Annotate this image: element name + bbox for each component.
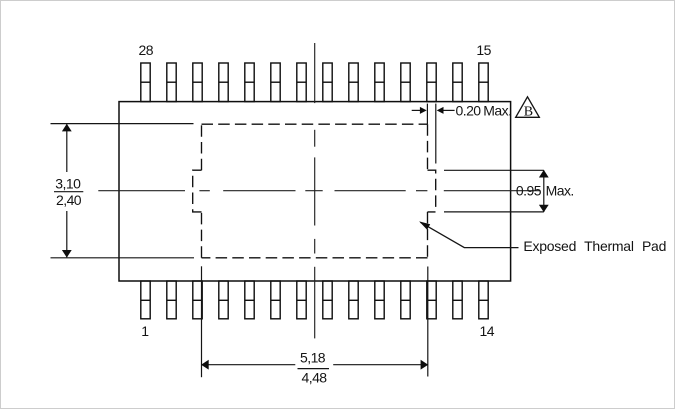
thermal pad left edge lower xyxy=(201,212,203,258)
bottom pin 12 xyxy=(427,281,436,319)
svg-text:14: 14 xyxy=(480,323,495,339)
top pin 25 xyxy=(219,63,228,102)
left dim fraction bar xyxy=(54,191,83,193)
thermal pad leader line xyxy=(421,222,519,247)
top pin 24 xyxy=(245,63,254,102)
svg-text:3,10: 3,10 xyxy=(55,176,81,192)
bottom pin 11 xyxy=(401,281,410,319)
top pin 21 xyxy=(323,63,332,102)
svg-text:2,40: 2,40 xyxy=(56,192,82,208)
left dim bottom extension line xyxy=(51,257,195,259)
bottom pin 14 xyxy=(479,281,488,319)
left dim top extension line xyxy=(51,123,194,125)
thermal pad left edge upper xyxy=(201,124,203,170)
left dim arrowhead down xyxy=(62,250,72,258)
bottom pin 8 xyxy=(323,281,332,319)
0.95 dim arrowhead up xyxy=(539,170,549,178)
svg-text:15: 15 xyxy=(476,42,491,58)
svg-text:B: B xyxy=(524,105,533,120)
bottom pin 4 xyxy=(219,281,228,319)
thermal pad left notch xyxy=(193,170,202,212)
top pin 16 xyxy=(453,63,462,102)
0.20 dim right arrow xyxy=(437,107,455,114)
left dim line xyxy=(66,124,68,257)
svg-text:0.95: 0.95 xyxy=(516,182,542,198)
0.95 dim bottom extension line xyxy=(444,211,544,213)
bottom pin 5 xyxy=(245,281,254,319)
bottom pin 9 xyxy=(349,281,358,319)
top pin 18 xyxy=(401,63,410,102)
revision triangle B xyxy=(516,97,540,120)
svg-text:Max.: Max. xyxy=(483,102,511,118)
thermal pad leader arrowhead xyxy=(419,221,430,229)
bottom pin 2 xyxy=(167,281,176,319)
svg-text:Max.: Max. xyxy=(546,182,574,198)
top pin 15 xyxy=(479,63,488,102)
top pin 17 xyxy=(427,63,436,102)
0.95 dim line xyxy=(543,170,545,212)
svg-text:0.20: 0.20 xyxy=(456,102,482,118)
bottom dim left extension line xyxy=(201,266,203,377)
bottom dim arrowhead left xyxy=(201,360,209,370)
bottom pin 6 xyxy=(271,281,280,319)
thermal pad top edge xyxy=(202,123,428,125)
package body outline xyxy=(119,102,511,281)
top pin 20 xyxy=(349,63,358,102)
svg-text:1: 1 xyxy=(141,323,149,339)
bottom pin 3 xyxy=(193,281,202,319)
svg-text:28: 28 xyxy=(139,42,154,58)
left dim arrowhead up xyxy=(62,124,72,132)
0.20 dim notch extension line xyxy=(435,104,437,164)
thermal pad right edge lower xyxy=(427,212,429,258)
bottom pin 13 xyxy=(453,281,462,319)
0.95 dim arrowhead down xyxy=(539,205,549,213)
bottom pin 7 xyxy=(297,281,306,319)
bottom dim right extension line xyxy=(427,267,429,377)
bottom dim arrowhead right xyxy=(421,360,429,370)
bottom pin 10 xyxy=(375,281,384,319)
thermal pad right notch xyxy=(428,170,436,212)
top pin 28 xyxy=(141,63,150,102)
0.20 dim left arrow xyxy=(412,107,427,114)
thermal pad bottom edge xyxy=(202,257,428,259)
0.20 dim pad-edge extension line xyxy=(426,104,428,125)
vertical centerline xyxy=(314,43,316,338)
top pin 27 xyxy=(167,63,176,102)
top pin 26 xyxy=(193,63,202,102)
top pin 23 xyxy=(271,63,280,102)
horizontal centerline xyxy=(98,190,540,192)
thermal pad right edge upper xyxy=(427,124,429,170)
bottom pin 1 xyxy=(141,281,150,319)
svg-text:Exposed Thermal Pad: Exposed Thermal Pad xyxy=(523,238,666,254)
svg-text:5,18: 5,18 xyxy=(300,350,326,366)
top pin 19 xyxy=(375,63,384,102)
top pin 22 xyxy=(297,63,306,102)
bottom dim fraction bar xyxy=(298,368,330,370)
0.95 dim top extension line xyxy=(444,169,544,171)
svg-text:4,48: 4,48 xyxy=(302,369,328,385)
bottom dim line xyxy=(202,364,428,366)
